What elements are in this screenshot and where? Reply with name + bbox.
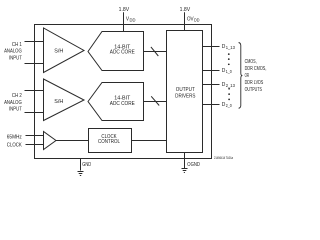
clock input wire top xyxy=(26,135,44,137)
svg-text:2_0: 2_0 xyxy=(226,103,233,108)
VDD supply wire xyxy=(123,12,125,31)
output wire D1_13 xyxy=(203,46,220,48)
output label D2_0 xyxy=(222,102,233,108)
CH2 input label xyxy=(4,93,22,113)
svg-text:DDR CMOS,: DDR CMOS, xyxy=(245,66,267,72)
svg-text:OUTPUTS: OUTPUTS xyxy=(245,87,263,93)
output drivers block xyxy=(167,31,203,153)
svg-text:CH 1: CH 1 xyxy=(12,42,22,48)
bus width slash 1 xyxy=(151,47,158,56)
OVDD pin label xyxy=(187,16,200,22)
output type label xyxy=(245,59,267,93)
OGND ground symbol xyxy=(182,169,188,173)
svg-text:1_0: 1_0 xyxy=(226,69,233,74)
svg-text:OR: OR xyxy=(245,73,250,79)
output wire D2_0 xyxy=(203,104,220,106)
svg-text:2_13: 2_13 xyxy=(226,83,236,88)
CH2 input wire top xyxy=(25,90,44,92)
svg-text:1.8V: 1.8V xyxy=(180,7,191,13)
output wire D2_13 xyxy=(203,84,220,86)
bus wire ADC2 to output drivers xyxy=(144,101,167,103)
wire clock control to output drivers xyxy=(132,140,167,142)
CH1 input wire bottom xyxy=(25,63,44,65)
svg-text:CH 2: CH 2 xyxy=(12,93,22,99)
svg-text:ANALOG: ANALOG xyxy=(4,49,22,55)
svg-text:DRIVERS: DRIVERS xyxy=(175,94,196,100)
svg-text:CMOS,: CMOS, xyxy=(245,59,257,65)
CH2 input wire bottom xyxy=(25,112,44,114)
CH1 input label xyxy=(4,42,22,62)
svg-text:21456414 TA01a: 21456414 TA01a xyxy=(214,156,233,160)
svg-text:OGND: OGND xyxy=(187,162,200,168)
OGND stem wire xyxy=(184,153,186,169)
ADC core 2 xyxy=(88,83,144,121)
ADC core 1 xyxy=(88,32,144,71)
chip boundary xyxy=(35,25,212,159)
clock input label xyxy=(7,134,22,148)
output group brace xyxy=(239,43,243,109)
svg-text:ADC CORE: ADC CORE xyxy=(110,50,135,56)
output label D2_13 xyxy=(222,82,236,88)
svg-text:OUTPUT: OUTPUT xyxy=(176,87,196,93)
output label D1_0 xyxy=(222,68,233,74)
bus width slash 2 xyxy=(151,96,159,105)
svg-text:ANALOG: ANALOG xyxy=(4,100,22,106)
svg-text:INPUT: INPUT xyxy=(9,55,22,61)
svg-text:1.8V: 1.8V xyxy=(119,7,130,13)
S/H amplifier 2 xyxy=(44,79,85,121)
svg-text:DD: DD xyxy=(194,18,200,23)
bus wire ADC1 to output drivers xyxy=(144,51,167,53)
clock buffer xyxy=(44,132,57,150)
clock control block xyxy=(89,129,132,153)
ellipsis dots group 2 xyxy=(228,88,230,100)
svg-text:1_13: 1_13 xyxy=(226,45,236,50)
svg-text:CLOCK: CLOCK xyxy=(7,142,22,148)
svg-text:DDR LVDS: DDR LVDS xyxy=(245,80,264,86)
GND stem wire xyxy=(80,159,82,171)
VDD pin label xyxy=(126,16,136,22)
svg-text:S/H: S/H xyxy=(54,99,63,105)
S/H amplifier 1 xyxy=(44,28,85,73)
ellipsis dots group 1 xyxy=(228,53,230,65)
OVDD supply wire xyxy=(184,12,186,30)
svg-text:GND: GND xyxy=(82,162,91,168)
wire clock buffer to clock control xyxy=(56,140,89,142)
svg-text:S/H: S/H xyxy=(54,49,63,55)
svg-text:INPUT: INPUT xyxy=(9,107,22,113)
svg-text:65MHz: 65MHz xyxy=(7,134,22,140)
svg-text:ADC CORE: ADC CORE xyxy=(110,101,135,107)
clock input wire bottom xyxy=(26,144,44,146)
svg-text:CONTROL: CONTROL xyxy=(98,139,120,145)
CH1 input wire top xyxy=(25,41,44,43)
svg-text:OV: OV xyxy=(187,16,194,22)
output wire D1_0 xyxy=(203,70,220,72)
svg-text:DD: DD xyxy=(130,18,136,23)
GND ground symbol xyxy=(78,172,84,176)
output label D1_13 xyxy=(222,44,236,50)
